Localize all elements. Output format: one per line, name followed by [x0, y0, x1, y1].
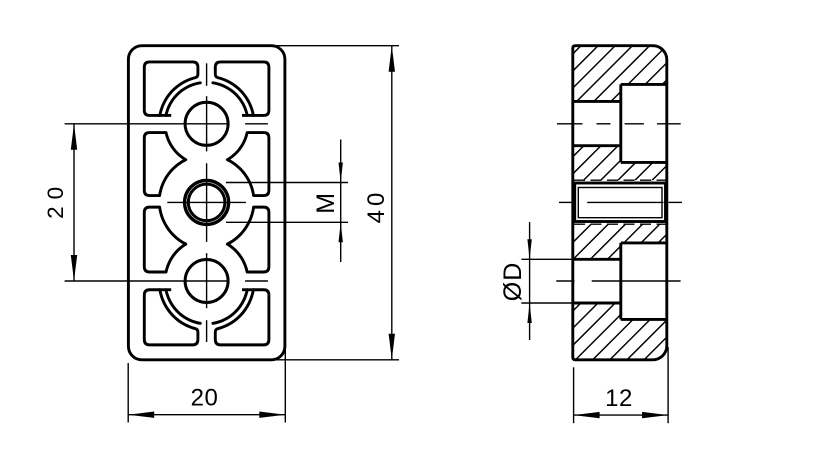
left view: middle threaded hole outer circle — [185, 180, 229, 224]
dimension ØD: lower arrowhead — [527, 303, 531, 323]
dimension 20 bottom: dimension line — [128, 414, 285, 416]
left view: bottom-right pocket top edge extension — [242, 288, 254, 291]
svg-text:ØD: ØD — [499, 262, 527, 302]
right view: hatching of lower middle material block — [173, 0, 688, 381]
left view: channel arc upper-left of top core hole — [166, 83, 200, 116]
left view: channel arc upper-right of top core hole — [213, 83, 247, 116]
dimension M: lower arrowhead — [339, 222, 343, 242]
left view: top core hole circle — [185, 102, 228, 145]
right view: bottom through-hole lower edge — [573, 302, 621, 305]
right view: top through-hole upper edge — [573, 100, 621, 103]
dimension 40: top extension line — [270, 45, 399, 47]
right view: bottom counterbore bottom edge — [621, 318, 667, 321]
dimension 12: dimension line — [574, 414, 669, 416]
dimension ØD: lower extension line — [521, 302, 572, 304]
svg-text:12: 12 — [605, 385, 633, 412]
right view: thread major diameter dashed line (top) — [574, 179, 666, 181]
left view: bottom-left pocket top edge extension — [159, 288, 171, 291]
dimension 40: top arrowhead — [389, 46, 395, 72]
dimension 20 bottom: right arrowhead — [259, 412, 285, 418]
svg-text:M: M — [312, 191, 340, 213]
left view: lower-right side cavity pocket — [227, 207, 268, 272]
right view: thread centerline segment 1 — [559, 201, 573, 203]
left view: top-right corner cavity pocket — [215, 62, 269, 116]
dimension 20 bottom: left extension line — [127, 363, 129, 423]
left view: top-left pocket bottom edge extension — [159, 114, 171, 117]
left view: top-right pocket bottom edge extension — [242, 114, 254, 117]
dimension 20 bottom: right extension line — [284, 348, 286, 423]
left view: outer profile outline (20x40 rounded rectangle) — [128, 46, 285, 360]
right view: top hole centerline segment 4 — [657, 123, 681, 125]
svg-text:40: 40 — [363, 189, 390, 224]
left view: upper-right side cavity pocket — [227, 133, 268, 196]
dimension 12: left extension line — [573, 367, 575, 423]
left view: bottom face slot slit line — [206, 320, 208, 342]
left view: lower-left side cavity pocket — [144, 207, 185, 272]
left view: middle circle vertical centerline — [206, 163, 208, 242]
dimension 20 bottom: left arrowhead — [128, 412, 154, 418]
right view: hatching of top material block — [173, 0, 688, 381]
left view: middle threaded hole inner circle — [188, 184, 225, 221]
dimension M: dimension line — [340, 140, 342, 263]
right view: bottom counterbore top edge — [621, 241, 667, 244]
dimension 20 left: dimension line — [73, 124, 75, 281]
left view: bottom core hole circle — [185, 260, 228, 303]
left view: bottom circle horizontal centerline / 20-dim extension — [65, 280, 230, 282]
left view: bottom-right corner cavity pocket — [215, 290, 269, 345]
left view: middle circle horizontal centerline — [167, 201, 246, 203]
left view: channel arc lower-right of bottom core hole — [213, 290, 247, 324]
dimension M: upper extension line — [226, 182, 348, 184]
dimension 12: right extension line — [667, 347, 669, 423]
dimension ØD: upper extension line — [521, 258, 572, 260]
right view: thread inner thin rectangle — [578, 188, 662, 218]
right view: bottom hole centerline segment 2 — [592, 280, 681, 282]
right view: thread centerline segment 3 — [669, 201, 683, 203]
right view: top counterbore top edge — [621, 83, 667, 86]
left view: top circle horizontal centerline / 20-dim extension — [65, 123, 230, 125]
right view: thread major diameter dashed line (bottom) — [574, 223, 666, 225]
left view: top-left corner cavity pocket — [144, 62, 198, 116]
dimension 20 left: upper arrowhead — [71, 124, 77, 150]
right view: top through-hole lower edge — [573, 144, 621, 147]
right view: hatching of upper middle material block — [173, 0, 688, 381]
dimension M: lower extension line — [226, 221, 348, 223]
right view: bottom counterbore wall — [619, 243, 622, 320]
svg-text:20: 20 — [43, 180, 68, 219]
left view: upper-left side cavity pocket — [144, 133, 185, 196]
right view: top hole centerline segment 3 — [625, 123, 644, 125]
dimension 12: left arrowhead — [574, 412, 600, 418]
right view: outer section outline — [573, 46, 667, 360]
right view: top hole centerline segment 2 — [597, 123, 611, 125]
left view: bottom-left corner cavity pocket — [144, 290, 198, 345]
dimension 12: right arrowhead — [642, 412, 668, 418]
right view: top hole centerline segment 1 — [557, 123, 583, 125]
right view: bottom hole centerline segment 1 — [556, 280, 574, 282]
right view: bottom through-hole upper edge — [573, 258, 621, 261]
right view: thread core rectangle — [575, 183, 666, 222]
dimension 40: dimension line — [391, 46, 393, 360]
svg-text:20: 20 — [191, 384, 219, 411]
left view: right face slot slit line (top cell) — [245, 123, 268, 125]
dimension 40: bottom extension line — [267, 359, 399, 361]
dimension ØD: upper arrowhead — [527, 239, 531, 259]
left view: top circle vertical centerline — [206, 96, 208, 151]
right view: hatching of bottom material block — [173, 0, 688, 381]
right view: top counterbore bottom edge — [621, 161, 667, 164]
right view: thread centerline segment 2 — [587, 201, 663, 203]
left view: right face slot slit line (bottom cell) — [245, 280, 268, 282]
dimension M: upper arrowhead — [339, 163, 343, 183]
left view: top face slot slit line — [206, 63, 208, 86]
dimension 40: bottom arrowhead — [389, 334, 395, 360]
dimension 20 left: lower arrowhead — [71, 255, 77, 281]
left view: bottom circle vertical centerline — [206, 253, 208, 308]
left view: channel arc lower-left of bottom core hole — [166, 290, 200, 324]
dimension ØD: dimension line — [529, 222, 531, 340]
right view: top counterbore wall — [619, 84, 622, 162]
